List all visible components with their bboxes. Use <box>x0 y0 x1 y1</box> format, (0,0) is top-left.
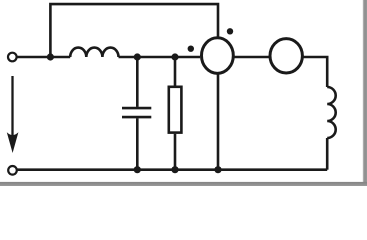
resistor R1 branch: lower lead <box>174 134 177 170</box>
winding W2 (coupled coil, circle symbol) <box>270 39 302 73</box>
capacitor C1 branch: upper lead <box>136 57 139 107</box>
junction: resistor top node <box>171 53 178 60</box>
junction: resistor bottom node <box>171 166 178 173</box>
capacitor C1 branch: lower lead <box>136 118 139 169</box>
polarity dot of W1 (upper right) <box>227 28 233 34</box>
wire: input top lead from terminal to inductor <box>17 56 71 59</box>
winding W1 (coupled coil, circle symbol) <box>202 38 234 74</box>
junction: riser / top lead <box>47 53 54 60</box>
polarity dot of W1 (left) <box>188 46 194 52</box>
current arrow (downward) between terminals <box>7 76 19 153</box>
inductor L1 (series, 3 humps) <box>70 48 118 57</box>
capacitor C1 plates <box>122 108 151 117</box>
junction: capacitor top node <box>134 53 141 60</box>
wire: inductor L2 lower lead to return rail <box>326 138 329 170</box>
junction: winding W1 bottom node <box>214 166 221 173</box>
wire: winding W1 bottom lead to return rail <box>217 74 220 170</box>
wire: top rail from left riser to transformer primary top <box>50 4 218 57</box>
wire: bottom return rail <box>17 168 327 171</box>
inductor L2 (shunt, 3 right-bulging humps) <box>327 87 336 138</box>
window edge shading (right) <box>363 0 367 186</box>
wire: inductor L1 to winding W1 <box>119 56 201 59</box>
resistor R1 branch: upper lead <box>174 57 177 86</box>
terminal: bottom input port <box>8 166 17 175</box>
terminal: top input port <box>8 53 17 62</box>
wire: winding W2 to right branch corner <box>303 57 328 87</box>
wire: winding W1 to winding W2 <box>235 56 270 59</box>
resistor R1 (box symbol) <box>169 87 182 133</box>
window edge shading (bottom) <box>0 182 367 186</box>
junction: capacitor bottom node <box>134 166 141 173</box>
